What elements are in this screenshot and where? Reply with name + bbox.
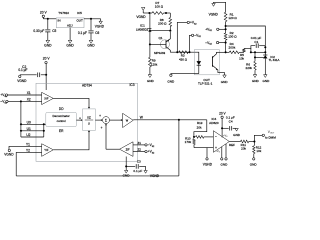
svg-text:IC5: IC5 (77, 11, 82, 15)
svg-text:ADJ: ADJ (67, 24, 73, 28)
wire Z1 (133, 144, 145, 146)
capacitor C3 0.1uF (126, 165, 135, 167)
resistor R13 20k (193, 136, 195, 138)
capacitor C2 0.1uF (20, 74, 37, 76)
svg-text:AD734: AD734 (82, 83, 92, 87)
transistor phototransistor of optocoupler (211, 56, 213, 67)
block multiplier XZ/U (83, 109, 96, 130)
wire W jog to R13 (194, 120, 207, 137)
svg-text:130 Ω: 130 Ω (228, 35, 237, 39)
svg-text:C6: C6 (95, 31, 99, 35)
svg-text:VGND: VGND (209, 13, 219, 17)
node junction +VS2 gen (176, 51, 178, 53)
node junction C1 top wire (225, 25, 227, 27)
ground under C6 (89, 40, 93, 43)
summing junction (103, 117, 110, 124)
op-amp W output amplifier (110, 119, 122, 121)
wire Z2 (133, 151, 145, 153)
capacitor C1 0.01uF (251, 46, 255, 49)
wire X1 (8, 94, 42, 96)
block denominator control (46, 112, 77, 126)
resistor R11 20k (241, 140, 249, 143)
svg-text:−: − (215, 135, 217, 139)
svg-text:Denominator: Denominator (53, 114, 70, 118)
wire rail to TL431 (251, 51, 265, 53)
svg-text:GND: GND (262, 79, 270, 83)
svg-text:170k: 170k (185, 140, 192, 144)
node Z1 terminal -VS2 (145, 144, 147, 146)
node emitter rail junction (169, 30, 171, 32)
svg-text:Q1: Q1 (158, 36, 162, 40)
svg-text:ER: ER (59, 129, 64, 133)
svg-text:LM385DZ: LM385DZ (136, 27, 149, 31)
svg-text:GND: GND (250, 162, 258, 166)
diode LED of optocoupler (194, 52, 199, 61)
svg-text:GND: GND (233, 133, 241, 137)
wire AD620 output (229, 141, 240, 143)
svg-text:XIF: XIF (44, 97, 49, 101)
svg-text:ZIF: ZIF (126, 147, 130, 151)
capacitor C6 0.1uF (90, 19, 92, 30)
ground under R6 (253, 75, 257, 78)
diode IC2 TL431A shunt reference (264, 46, 266, 55)
wire multiplier to summer (95, 119, 101, 121)
svg-text:VGND: VGND (4, 153, 14, 157)
svg-text:0.33 μF: 0.33 μF (33, 29, 44, 33)
node Q1 base junction (149, 43, 151, 45)
svg-text:GND: GND (147, 79, 155, 83)
op-amp U-block IC3 AD734 outline (36, 83, 138, 161)
op-amp IC4 AD620 instrumentation amplifier (213, 131, 229, 153)
svg-text:U: U (88, 122, 90, 126)
resistor R2 130ohm (224, 33, 227, 40)
wire AD620 -VS pin to GND (221, 147, 223, 158)
svg-text:Z2: Z2 (137, 148, 141, 152)
svg-text:TL 431A: TL 431A (269, 58, 280, 62)
svg-text:OUT: OUT (76, 18, 83, 22)
svg-text:control: control (57, 119, 66, 123)
wire top to C1/TL431 (226, 26, 266, 46)
wire YIF output to multiplier (53, 132, 89, 150)
capacitor C4 0.1uF (222, 127, 229, 129)
svg-text:100 Ω: 100 Ω (155, 5, 164, 9)
ground under Z node (125, 170, 128, 173)
wire 20V supply into AD734 (45, 75, 47, 90)
svg-text:IN: IN (58, 19, 61, 23)
svg-text:VGND: VGND (136, 15, 146, 19)
ground at C4 (235, 128, 238, 131)
svg-text:GND: GND (167, 80, 175, 84)
svg-text:REF: REF (229, 143, 235, 147)
wire regulator OUT (84, 18, 101, 20)
node output junction (253, 140, 255, 142)
svg-text:to DMM: to DMM (265, 135, 276, 139)
wire -VS2 rail down to U pins (20, 101, 22, 137)
svg-text:10k: 10k (239, 56, 244, 60)
node junction C4 (221, 127, 223, 129)
svg-text:120 Ω: 120 Ω (228, 16, 237, 20)
resistor R4 200k (226, 51, 230, 53)
svg-text:20k: 20k (197, 125, 202, 129)
node junction C3 (125, 165, 127, 167)
svg-text:GND: GND (123, 174, 131, 178)
svg-text:+: + (99, 114, 101, 118)
svg-text:120k: 120k (151, 62, 158, 66)
svg-text:MPSA63: MPSA63 (154, 51, 165, 55)
svg-text:GND: GND (44, 43, 52, 47)
svg-text:GND: GND (221, 80, 229, 84)
ground under R9 (148, 75, 152, 78)
wire Y2 feedback down (15, 152, 17, 176)
ground under C5 (46, 40, 50, 43)
svg-text:C3: C3 (137, 160, 141, 164)
node junction C5 (47, 18, 49, 20)
ground under TL431 (264, 75, 268, 78)
wire 20V to regulator IN (43, 18, 56, 20)
svg-text:+: + (101, 126, 103, 130)
svg-text:U2: U2 (26, 133, 30, 137)
wire bottom feedback rail (16, 175, 179, 177)
svg-text:X1: X1 (27, 91, 31, 95)
svg-text:Y2: Y2 (26, 148, 30, 152)
resistor R5 10k (243, 49, 245, 53)
transistor Q1 MPSA63 (160, 40, 169, 49)
ground under phototransistor emitter (223, 75, 227, 78)
svg-text:VGND: VGND (17, 79, 27, 83)
wire ZIF input from summer node (106, 148, 120, 150)
wire U0 (21, 123, 44, 125)
svg-text:Y1: Y1 (26, 142, 30, 146)
optocoupler box TLP521-1 (194, 50, 219, 75)
wire regulator ADJ to ground (69, 28, 71, 41)
svg-text:XZ: XZ (87, 116, 91, 120)
wire to VOUT terminal (254, 135, 262, 141)
svg-text:X2: X2 (27, 97, 31, 101)
diode IC1 LM385 reference (149, 13, 151, 28)
svg-text:GND: GND (252, 79, 260, 83)
node junction -VS2 gen (188, 51, 190, 53)
svg-text:C5: C5 (52, 29, 56, 33)
wire TL431 ref (255, 56, 264, 58)
ground under ADJ (68, 40, 72, 43)
resistor R8 200ohm (169, 13, 171, 18)
node junction C1 bottom (250, 51, 252, 53)
svg-text:C1: C1 (254, 40, 258, 44)
node junction 20V/C2 (45, 74, 47, 76)
resistor R7 100ohm (152, 12, 164, 15)
wire +VS2 generator terminal (177, 22, 187, 52)
op-amp YIF input buffer (42, 144, 54, 157)
wire U1 (21, 130, 44, 132)
wire feedback riser to W node (178, 120, 180, 176)
svg-text:20 V: 20 V (43, 57, 51, 61)
resistor R12 10k (253, 142, 255, 146)
power VGND at C3 (145, 166, 147, 170)
svg-text:YIF: YIF (44, 148, 49, 152)
svg-text:U1: U1 (27, 127, 31, 131)
wire denominator control to multiplier (76, 119, 81, 121)
svg-text:C4: C4 (229, 119, 233, 123)
power VGND terminal Y1 (8, 149, 10, 151)
wire AD620 REF pin to GND (225, 144, 227, 158)
regulator IC5 TS7810 box (56, 18, 84, 28)
wire -VS2 generator terminal (190, 35, 192, 52)
node junction -VS2 to U pins (20, 100, 22, 102)
power VGND at regulator OUT (100, 19, 102, 21)
svg-text:200 Ω: 200 Ω (158, 22, 167, 26)
svg-text:200k: 200k (229, 46, 236, 50)
svg-text:10k: 10k (256, 149, 261, 153)
node junction R4 (225, 51, 227, 53)
svg-text:Z1: Z1 (137, 141, 141, 145)
svg-text:TS7810: TS7810 (58, 11, 69, 15)
resistor R1 120ohm (224, 12, 227, 21)
svg-text:0.1 μF: 0.1 μF (133, 169, 142, 173)
power VGND terminal at C2 (19, 75, 21, 77)
wire Y1 to VGND (9, 146, 42, 149)
power VGND at R7 (141, 7, 145, 10)
svg-text:VGND: VGND (95, 25, 105, 29)
capacitor C5 0.33uF (47, 19, 49, 29)
svg-text:GND: GND (87, 43, 95, 47)
wire W output (133, 119, 207, 121)
wire R7 row (143, 12, 152, 14)
node GND terminal under R12 (253, 158, 255, 160)
svg-text:VGND: VGND (150, 174, 160, 178)
svg-text:GND: GND (66, 43, 74, 47)
svg-text:0.1 μF: 0.1 μF (18, 68, 27, 72)
svg-text:0.1 μF: 0.1 μF (78, 31, 87, 35)
svg-text:IC3: IC3 (130, 83, 135, 87)
wire Y2 (16, 151, 41, 153)
op-amp ZIF buffer (120, 142, 134, 157)
op-amp XIF input buffer (42, 92, 54, 104)
resistor R6 220k (254, 52, 256, 57)
wire LED cathode to GND (171, 73, 199, 75)
wire R10 to +IN (194, 147, 213, 149)
wire Z node to C3 (125, 157, 127, 171)
node W junction (178, 119, 180, 121)
svg-text:TLP 521-1: TLP 521-1 (198, 82, 213, 86)
wire collector rail (170, 51, 194, 53)
svg-text:GND: GND (220, 163, 228, 167)
svg-text:DD: DD (59, 107, 64, 111)
wire U2 (21, 136, 44, 138)
resistor R3 430ohm (179, 51, 189, 54)
svg-text:U0: U0 (27, 120, 31, 124)
resistor R9 120k (149, 44, 151, 57)
resistor R10 170k (193, 139, 195, 145)
wire LM385 rail (150, 30, 170, 32)
svg-text:20k: 20k (241, 146, 246, 150)
svg-text:VGND: VGND (203, 163, 213, 167)
wire ZIF to summer (105, 124, 107, 150)
wire X2 (8, 100, 42, 102)
power VGND at R1 (212, 3, 216, 6)
svg-text:430 Ω: 430 Ω (179, 57, 188, 61)
svg-text:AD620: AD620 (209, 121, 219, 125)
power VGND at AD620 input (206, 148, 208, 158)
wire phototransistor collector to chain (216, 51, 225, 53)
svg-text:220k: 220k (246, 66, 253, 70)
node Z2 terminal +VS2 (145, 150, 147, 152)
svg-text:20 V: 20 V (40, 10, 48, 14)
wire U bus to denominator control (43, 124, 45, 137)
wire XIF output to multiplier (53, 98, 89, 107)
node junction C6 (90, 18, 92, 20)
